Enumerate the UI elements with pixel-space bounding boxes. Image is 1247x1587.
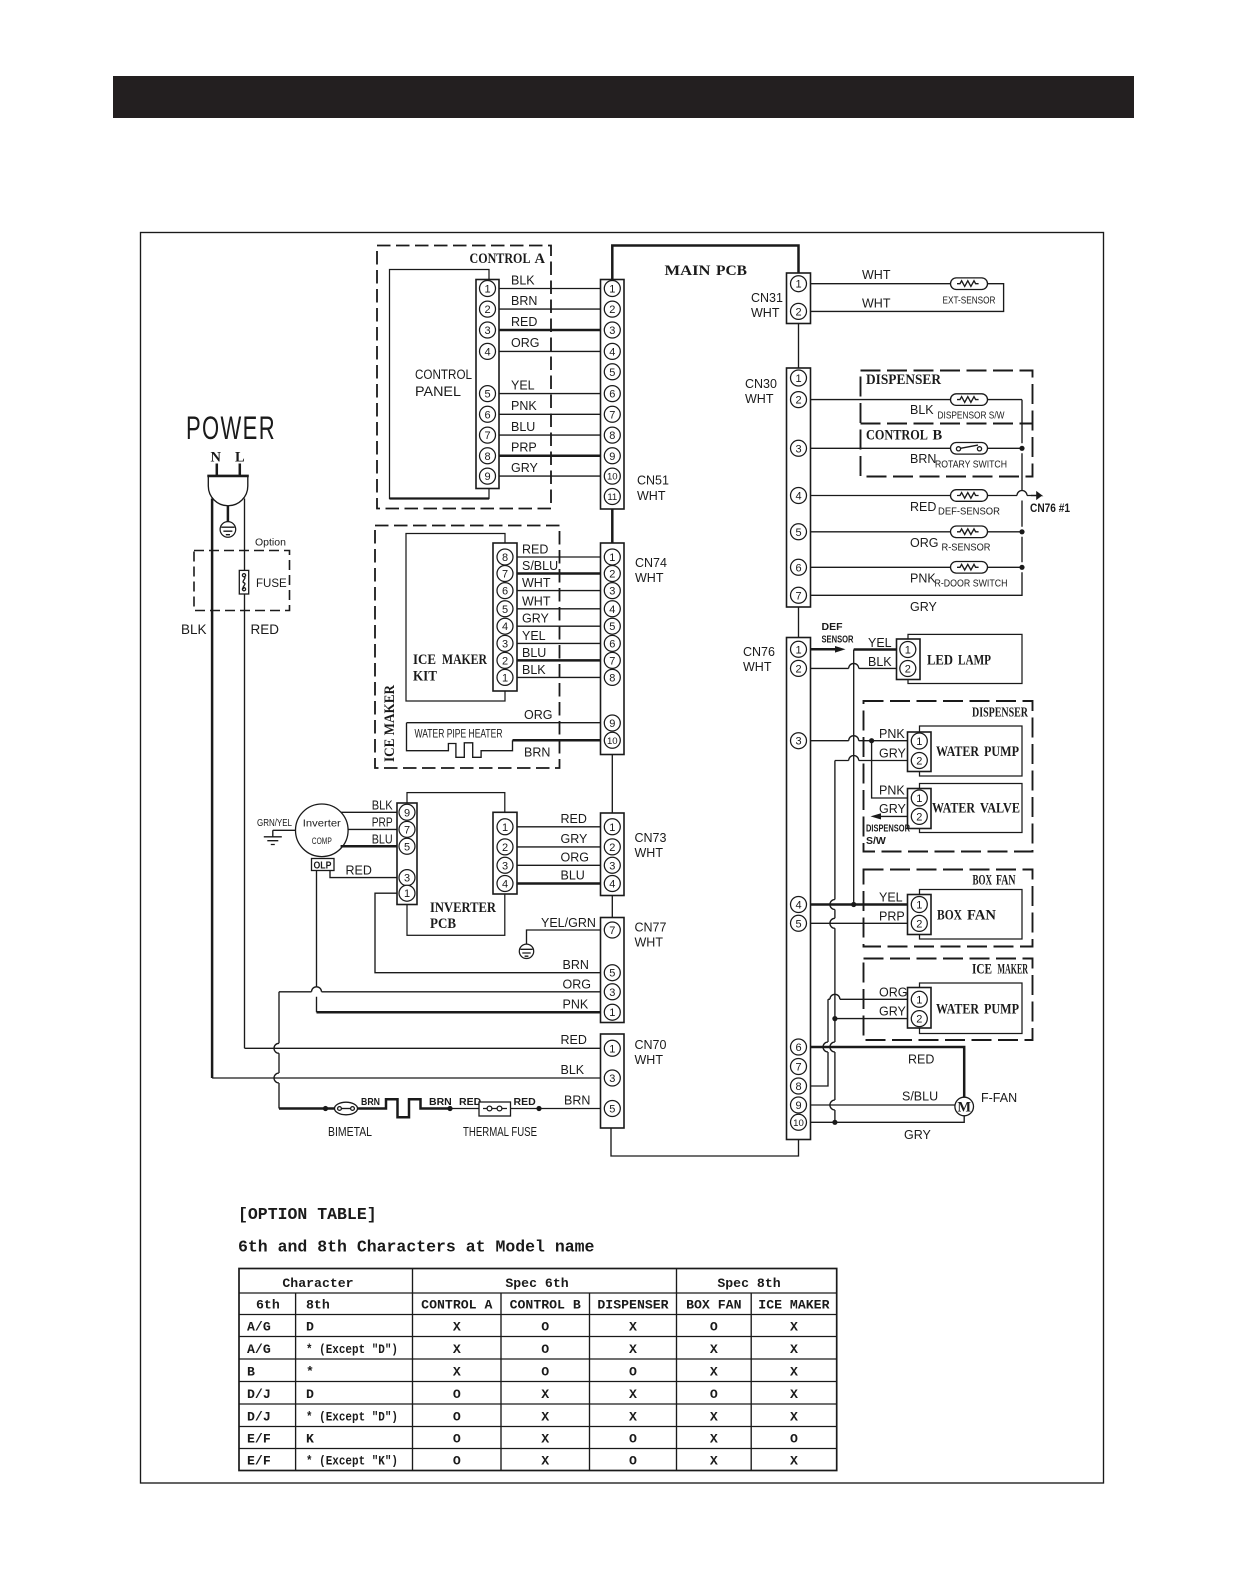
svg-text:RED: RED	[346, 864, 372, 878]
wire RED to CN70-1	[245, 1047, 601, 1049]
svg-text:RED: RED	[522, 543, 548, 557]
svg-text:E/F: E/F	[247, 1453, 271, 1468]
svg-text:WATER: WATER	[936, 1002, 979, 1018]
svg-text:BRN: BRN	[361, 1096, 380, 1108]
svg-text:GRN/YEL: GRN/YEL	[257, 817, 292, 829]
svg-text:CONTROL: CONTROL	[415, 367, 472, 382]
svg-text:WHT: WHT	[637, 489, 666, 503]
BOX FAN box	[920, 890, 1023, 940]
svg-text:10: 10	[607, 472, 618, 483]
wire CN30 to CN76	[798, 607, 800, 638]
svg-text:5: 5	[404, 841, 410, 853]
svg-text:WHT: WHT	[635, 571, 664, 585]
svg-text:3: 3	[484, 325, 490, 337]
svg-text:E/F: E/F	[247, 1431, 271, 1446]
svg-text:8: 8	[609, 430, 615, 442]
svg-text:CONTROL A: CONTROL A	[421, 1298, 492, 1313]
svg-text:RED: RED	[561, 1033, 587, 1047]
svg-text:9: 9	[484, 471, 490, 483]
svg-text:7: 7	[609, 925, 615, 937]
wire RED ice maker kit to CN74	[517, 556, 601, 558]
svg-text:O: O	[453, 1431, 461, 1446]
ground (yel/grn)	[519, 944, 533, 958]
svg-text:X: X	[541, 1409, 549, 1424]
svg-text:X: X	[790, 1342, 798, 1357]
connector inverter pcb left	[397, 803, 417, 905]
connector BOX FAN	[908, 895, 932, 935]
svg-text:4: 4	[795, 899, 801, 911]
svg-text:PNK: PNK	[879, 727, 905, 741]
svg-text:PUMP: PUMP	[984, 1002, 1019, 1018]
svg-text:PNK: PNK	[879, 784, 905, 798]
wire RED CN76-6 to F-FAN	[811, 1047, 965, 1097]
svg-text:B: B	[247, 1364, 255, 1379]
svg-text:X: X	[453, 1342, 461, 1357]
arrow to CN76 #1	[1031, 493, 1041, 499]
ground (plug earth)	[227, 506, 230, 522]
wire PRP comp to inverter pcb	[348, 828, 397, 830]
svg-text:1: 1	[795, 279, 801, 291]
ice maker kit box	[406, 534, 505, 702]
wire BRN water pipe heater to CN74-10	[513, 739, 601, 742]
svg-text:2: 2	[609, 568, 615, 580]
svg-text:CN70: CN70	[635, 1038, 667, 1052]
LED LAMP box	[908, 634, 1022, 683]
wire BLU ice maker kit to CN74	[517, 659, 601, 662]
svg-text:8: 8	[609, 672, 615, 684]
svg-text:WHT: WHT	[635, 846, 664, 860]
svg-text:D: D	[306, 1319, 314, 1334]
svg-text:6: 6	[484, 409, 490, 421]
svg-text:4: 4	[609, 604, 615, 616]
svg-text:2: 2	[609, 304, 615, 316]
wire WHT CN31-1 to EXT-SENSOR	[811, 283, 951, 285]
wire GRY control panel to CN51	[499, 475, 601, 477]
svg-text:PCB: PCB	[430, 916, 456, 932]
wire BRN junction to CN70-5	[539, 1108, 601, 1110]
svg-text:9: 9	[609, 718, 615, 730]
svg-text:D/J: D/J	[247, 1387, 271, 1402]
svg-text:FAN: FAN	[996, 873, 1016, 889]
svg-text:*: *	[306, 1364, 314, 1379]
wire BLK ice maker kit to CN74	[517, 676, 601, 678]
svg-text:D: D	[306, 1387, 314, 1402]
svg-text:CN31: CN31	[751, 291, 783, 305]
svg-text:RED: RED	[251, 622, 280, 637]
svg-text:3: 3	[609, 860, 615, 872]
svg-text:WATER: WATER	[932, 801, 975, 817]
connector WATER PUMP	[908, 732, 932, 772]
wire GRY junction to WATER PUMP (ice)	[835, 1018, 908, 1020]
svg-text:EXT-SENSOR: EXT-SENSOR	[943, 295, 996, 307]
arrow DISPENSOR S/W	[881, 815, 908, 817]
svg-text:BIMETAL: BIMETAL	[328, 1125, 372, 1139]
svg-text:RED: RED	[908, 1053, 934, 1067]
svg-text:BLU: BLU	[522, 646, 546, 660]
wire PRP CN76-5 to BOX FAN	[811, 922, 908, 924]
svg-text:4: 4	[502, 621, 508, 633]
svg-text:PCB: PCB	[716, 263, 747, 279]
svg-text:WHT: WHT	[635, 936, 664, 950]
svg-text:GRY: GRY	[910, 600, 938, 614]
svg-text:6: 6	[502, 586, 508, 598]
wire RED thermal fuse to junction	[511, 1108, 540, 1110]
svg-text:3: 3	[502, 638, 508, 650]
svg-text:1: 1	[795, 644, 801, 656]
svg-text:7: 7	[795, 590, 801, 602]
wire YEL control panel to CN51	[499, 393, 601, 395]
fuse FUSE	[239, 570, 248, 594]
svg-text:K: K	[306, 1431, 314, 1446]
svg-text:D/J: D/J	[247, 1409, 271, 1424]
svg-text:7: 7	[502, 568, 508, 580]
svg-text:L: L	[235, 450, 245, 466]
svg-text:1: 1	[609, 552, 615, 564]
svg-text:BRN: BRN	[910, 452, 936, 466]
wire ORG inverter pcb to CN73	[517, 864, 601, 866]
svg-text:CONTROL: CONTROL	[470, 251, 531, 267]
wire YEL CN76-4 to BOX FAN	[811, 903, 908, 906]
wire BLK CN76-2 to LED LAMP	[811, 663, 897, 668]
thermal fuse THERMAL FUSE	[479, 1102, 511, 1116]
wire S/BLU CN76-9 to F-FAN	[811, 1104, 955, 1106]
svg-text:X: X	[453, 1319, 461, 1334]
wire PNK CN30-6 to R-DOOR SWITCH	[811, 566, 951, 568]
svg-text:R-DOOR SWITCH: R-DOOR SWITCH	[935, 578, 1008, 590]
wire PNK CN76-3 to WATER PUMP	[811, 736, 908, 741]
svg-text:2: 2	[916, 755, 922, 767]
svg-text:THERMAL FUSE: THERMAL FUSE	[463, 1125, 537, 1139]
svg-text:* (Except "D"): * (Except "D")	[306, 1409, 398, 1424]
svg-text:2: 2	[502, 655, 508, 667]
svg-text:CN73: CN73	[635, 831, 667, 845]
svg-text:GRY: GRY	[904, 1128, 932, 1142]
svg-text:1: 1	[484, 283, 490, 295]
svg-text:1: 1	[795, 373, 801, 385]
svg-text:BLU: BLU	[511, 420, 535, 434]
WATER PUMP box (dispenser)	[920, 726, 1023, 776]
svg-text:Inverter: Inverter	[303, 818, 342, 830]
svg-text:3: 3	[404, 873, 410, 885]
svg-text:O: O	[541, 1364, 549, 1379]
svg-text:COMP: COMP	[312, 836, 332, 847]
connector CN51	[601, 280, 625, 510]
svg-text:WHT: WHT	[862, 297, 891, 311]
svg-text:1: 1	[916, 793, 922, 805]
svg-text:RED: RED	[459, 1096, 482, 1108]
svg-text:X: X	[629, 1387, 637, 1402]
wire BRN bimetal chain to CN70-5	[279, 1107, 335, 1110]
wire RED OLP to inverter pcb	[330, 871, 397, 878]
svg-text:5: 5	[609, 1103, 615, 1115]
svg-text:M: M	[957, 1100, 971, 1116]
svg-text:4: 4	[484, 346, 490, 358]
svg-text:WHT: WHT	[751, 306, 780, 320]
wire BLU comp to inverter pcb	[341, 845, 397, 848]
svg-text:LAMP: LAMP	[958, 653, 991, 669]
connector WATER VALVE	[908, 789, 932, 829]
svg-text:ROTARY SWITCH: ROTARY SWITCH	[935, 459, 1007, 471]
connector CN73	[601, 813, 625, 896]
svg-text:GRY: GRY	[511, 461, 539, 475]
sensor EXT-SENSOR	[951, 278, 988, 290]
wire WHT ice maker kit to CN74	[517, 590, 601, 592]
svg-text:3: 3	[609, 586, 615, 598]
svg-text:RED: RED	[561, 812, 587, 826]
svg-text:2: 2	[795, 663, 801, 675]
divider dashed	[861, 423, 1033, 425]
svg-text:6: 6	[795, 562, 801, 574]
connector control panel	[476, 280, 499, 489]
svg-text:3: 3	[795, 736, 801, 748]
connector LED LAMP	[897, 639, 921, 680]
svg-text:4: 4	[502, 878, 508, 890]
wire ORG CN30-5 to R-SENSOR	[811, 531, 951, 533]
svg-text:3: 3	[795, 443, 801, 455]
svg-text:CONTROL B: CONTROL B	[510, 1298, 581, 1313]
wire GRY CN76-10 to F-FAN	[811, 1116, 965, 1123]
svg-text:PRP: PRP	[372, 816, 393, 830]
svg-text:YEL: YEL	[511, 378, 535, 392]
wire YEL ice maker kit to CN74	[517, 642, 601, 644]
sensor DEF-SENSOR	[951, 490, 988, 502]
svg-text:3: 3	[502, 860, 508, 872]
svg-text:S/BLU: S/BLU	[522, 559, 558, 573]
svg-text:O: O	[710, 1319, 718, 1334]
svg-text:BOX: BOX	[973, 873, 993, 889]
svg-text:1: 1	[609, 283, 615, 295]
svg-text:X: X	[541, 1431, 549, 1446]
svg-text:X: X	[790, 1364, 798, 1379]
svg-text:6th: 6th	[256, 1298, 280, 1313]
svg-text:LED: LED	[927, 653, 953, 669]
svg-text:GRY: GRY	[879, 747, 907, 761]
svg-text:ICE MAKER: ICE MAKER	[758, 1298, 829, 1313]
wire PNK branch to WATER VALVE	[872, 741, 908, 798]
svg-text:BLK: BLK	[372, 799, 394, 813]
svg-text:CN77: CN77	[635, 921, 667, 935]
svg-text:MAIN: MAIN	[665, 263, 712, 279]
wire CN51 to CN31	[612, 246, 798, 280]
svg-text:CN74: CN74	[635, 556, 667, 570]
svg-text:5: 5	[484, 389, 490, 401]
svg-text:PNK: PNK	[511, 399, 537, 413]
svg-text:WHT: WHT	[522, 576, 551, 590]
svg-text:FAN: FAN	[967, 908, 997, 924]
svg-text:WHT: WHT	[862, 268, 891, 282]
svg-text:6: 6	[795, 1042, 801, 1054]
svg-text:6: 6	[609, 638, 615, 650]
wire CN51 to CN74	[611, 509, 614, 543]
wire PRP control panel to CN51	[499, 455, 601, 458]
svg-text:X: X	[453, 1364, 461, 1379]
svg-text:8: 8	[795, 1081, 801, 1093]
svg-text:PNK: PNK	[910, 572, 936, 586]
svg-text:X: X	[629, 1342, 637, 1357]
svg-text:8: 8	[502, 552, 508, 564]
svg-text:10: 10	[607, 736, 618, 747]
wire BLK CN30-2 to DISPENSOR S/W	[811, 399, 951, 401]
svg-text:BLK: BLK	[561, 1063, 585, 1077]
svg-text:BLK: BLK	[522, 663, 546, 677]
option table	[239, 1269, 837, 1471]
svg-text:[OPTION TABLE]: [OPTION TABLE]	[238, 1205, 377, 1224]
wire ORG to CN77-3	[279, 987, 601, 992]
svg-text:BLU: BLU	[372, 833, 393, 847]
motor F-FAN	[955, 1097, 974, 1116]
svg-text:O: O	[629, 1453, 637, 1468]
wire GRY ice maker kit to CN74	[517, 625, 601, 627]
svg-text:N: N	[211, 450, 222, 466]
svg-text:O: O	[710, 1387, 718, 1402]
wire ORG water pipe heater to CN74-9	[407, 722, 601, 724]
svg-text:8: 8	[484, 451, 490, 463]
wire ORG riser (bimetal branch)	[274, 992, 279, 1109]
svg-text:1: 1	[609, 1007, 615, 1019]
svg-text:ORG: ORG	[511, 336, 539, 350]
title bar	[113, 76, 1134, 118]
svg-text:O: O	[541, 1319, 549, 1334]
svg-text:DISPENSER: DISPENSER	[972, 706, 1029, 721]
svg-text:BOX: BOX	[937, 908, 962, 924]
svg-text:X: X	[710, 1364, 718, 1379]
svg-text:3: 3	[609, 1073, 615, 1085]
svg-text:* (Except "K"): * (Except "K")	[306, 1453, 398, 1468]
svg-text:FUSE: FUSE	[256, 578, 287, 590]
wire S/BLU ice maker kit to CN74	[517, 572, 601, 575]
svg-text:4: 4	[609, 878, 615, 890]
svg-text:OLP: OLP	[314, 860, 332, 872]
svg-text:Character: Character	[282, 1276, 353, 1291]
wire RED power upper	[244, 499, 246, 571]
svg-text:MAKER: MAKER	[442, 652, 487, 668]
ICE MAKER dashed enclosure (loads)	[864, 959, 1033, 1041]
svg-text:GRY: GRY	[522, 612, 550, 626]
svg-text:2: 2	[795, 395, 801, 407]
svg-text:7: 7	[404, 824, 410, 836]
ICE MAKER dashed enclosure	[375, 526, 560, 769]
svg-text:3: 3	[609, 987, 615, 999]
svg-text:GRY: GRY	[879, 1005, 907, 1019]
wire YEL/GRN to CN77-7	[527, 930, 601, 944]
svg-text:1: 1	[905, 644, 911, 656]
svg-text:MAKER: MAKER	[998, 962, 1029, 978]
svg-text:BLK: BLK	[181, 622, 207, 637]
svg-text:POWER: POWER	[186, 410, 276, 446]
connector CN77	[601, 918, 625, 1023]
svg-text:1: 1	[609, 822, 615, 834]
svg-text:BRN: BRN	[511, 294, 537, 308]
svg-text:GRY: GRY	[879, 802, 907, 816]
svg-text:Option: Option	[255, 537, 286, 549]
svg-text:WATER: WATER	[936, 744, 979, 760]
svg-text:DISPENSOR S/W: DISPENSOR S/W	[938, 410, 1005, 422]
svg-text:PUMP: PUMP	[984, 744, 1019, 760]
wire BLK comp to inverter pcb	[341, 811, 397, 813]
wire PNK control panel to CN51	[499, 413, 601, 415]
svg-text:8th: 8th	[306, 1298, 330, 1313]
wire GRN/YEL to ground	[273, 830, 296, 836]
svg-text:A/G: A/G	[247, 1319, 271, 1334]
svg-text:BRN: BRN	[524, 746, 550, 760]
svg-text:1: 1	[502, 672, 508, 684]
svg-text:X: X	[541, 1387, 549, 1402]
wire ORG control panel to CN51	[499, 350, 601, 352]
svg-text:BLU: BLU	[561, 869, 585, 883]
svg-text:O: O	[629, 1431, 637, 1446]
svg-text:11: 11	[607, 492, 617, 503]
svg-text:10: 10	[793, 1118, 804, 1129]
wire CN31 to CN30	[798, 324, 800, 369]
svg-text:5: 5	[609, 621, 615, 633]
svg-text:2: 2	[484, 304, 490, 316]
svg-text:PRP: PRP	[511, 441, 537, 455]
sensor R-DOOR SWITCH	[951, 562, 988, 574]
inverter pcb outline	[407, 793, 505, 936]
svg-text:1: 1	[916, 994, 922, 1006]
connector ice maker kit	[493, 543, 517, 691]
svg-text:4: 4	[795, 490, 801, 502]
svg-text:BRN: BRN	[429, 1096, 452, 1108]
svg-text:CN76: CN76	[743, 645, 775, 659]
WATER VALVE box	[920, 784, 1023, 833]
switch ROTARY SWITCH	[951, 443, 988, 455]
svg-text:X: X	[790, 1319, 798, 1334]
svg-text:X: X	[710, 1342, 718, 1357]
svg-text:WHT: WHT	[743, 660, 772, 674]
arrow def sensor from CN76-1	[811, 648, 836, 651]
svg-text:RED: RED	[514, 1096, 537, 1108]
svg-text:KIT: KIT	[413, 669, 437, 685]
svg-text:6th and 8th Characters at Mode: 6th and 8th Characters at Model name	[238, 1238, 595, 1257]
svg-text:DISPENSOR: DISPENSOR	[866, 823, 910, 835]
svg-text:BLK: BLK	[868, 655, 892, 669]
svg-text:O: O	[790, 1431, 798, 1446]
connector CN70	[601, 1034, 625, 1128]
wire GRY CN30-7 riser	[811, 400, 1023, 596]
svg-text:5: 5	[502, 604, 508, 616]
svg-text:3: 3	[609, 325, 615, 337]
wire BLU control panel to CN51	[499, 434, 601, 436]
svg-text:Spec 8th: Spec 8th	[717, 1276, 780, 1291]
svg-text:9: 9	[795, 1100, 801, 1112]
svg-text:CONTROL: CONTROL	[866, 428, 928, 444]
svg-text:CN30: CN30	[745, 377, 777, 391]
svg-text:1: 1	[916, 736, 922, 748]
svg-text:X: X	[629, 1409, 637, 1424]
svg-text:1: 1	[609, 1043, 615, 1055]
Option dashed box	[194, 551, 290, 611]
svg-text:BOX FAN: BOX FAN	[686, 1298, 741, 1313]
svg-text:CN76 #1: CN76 #1	[1030, 503, 1071, 515]
sensor DISPENSOR S/W	[951, 394, 988, 406]
wire GRY net riser	[835, 756, 908, 761]
svg-text:2: 2	[916, 918, 922, 930]
WATER PUMP box (ice maker)	[920, 983, 1023, 1034]
svg-text:X: X	[710, 1453, 718, 1468]
svg-text:O: O	[541, 1342, 549, 1357]
svg-text:X: X	[710, 1409, 718, 1424]
wire YEL junction to LED LAMP	[853, 650, 855, 905]
sensor R-SENSOR	[951, 526, 988, 538]
ground (compressor)	[264, 837, 282, 845]
svg-text:BLK: BLK	[511, 273, 535, 287]
svg-text:O: O	[453, 1387, 461, 1402]
svg-text:ORG: ORG	[563, 978, 591, 992]
svg-text:7: 7	[609, 409, 615, 421]
svg-text:2: 2	[916, 811, 922, 823]
DISPENSER dashed enclosure (loads)	[864, 701, 1033, 852]
